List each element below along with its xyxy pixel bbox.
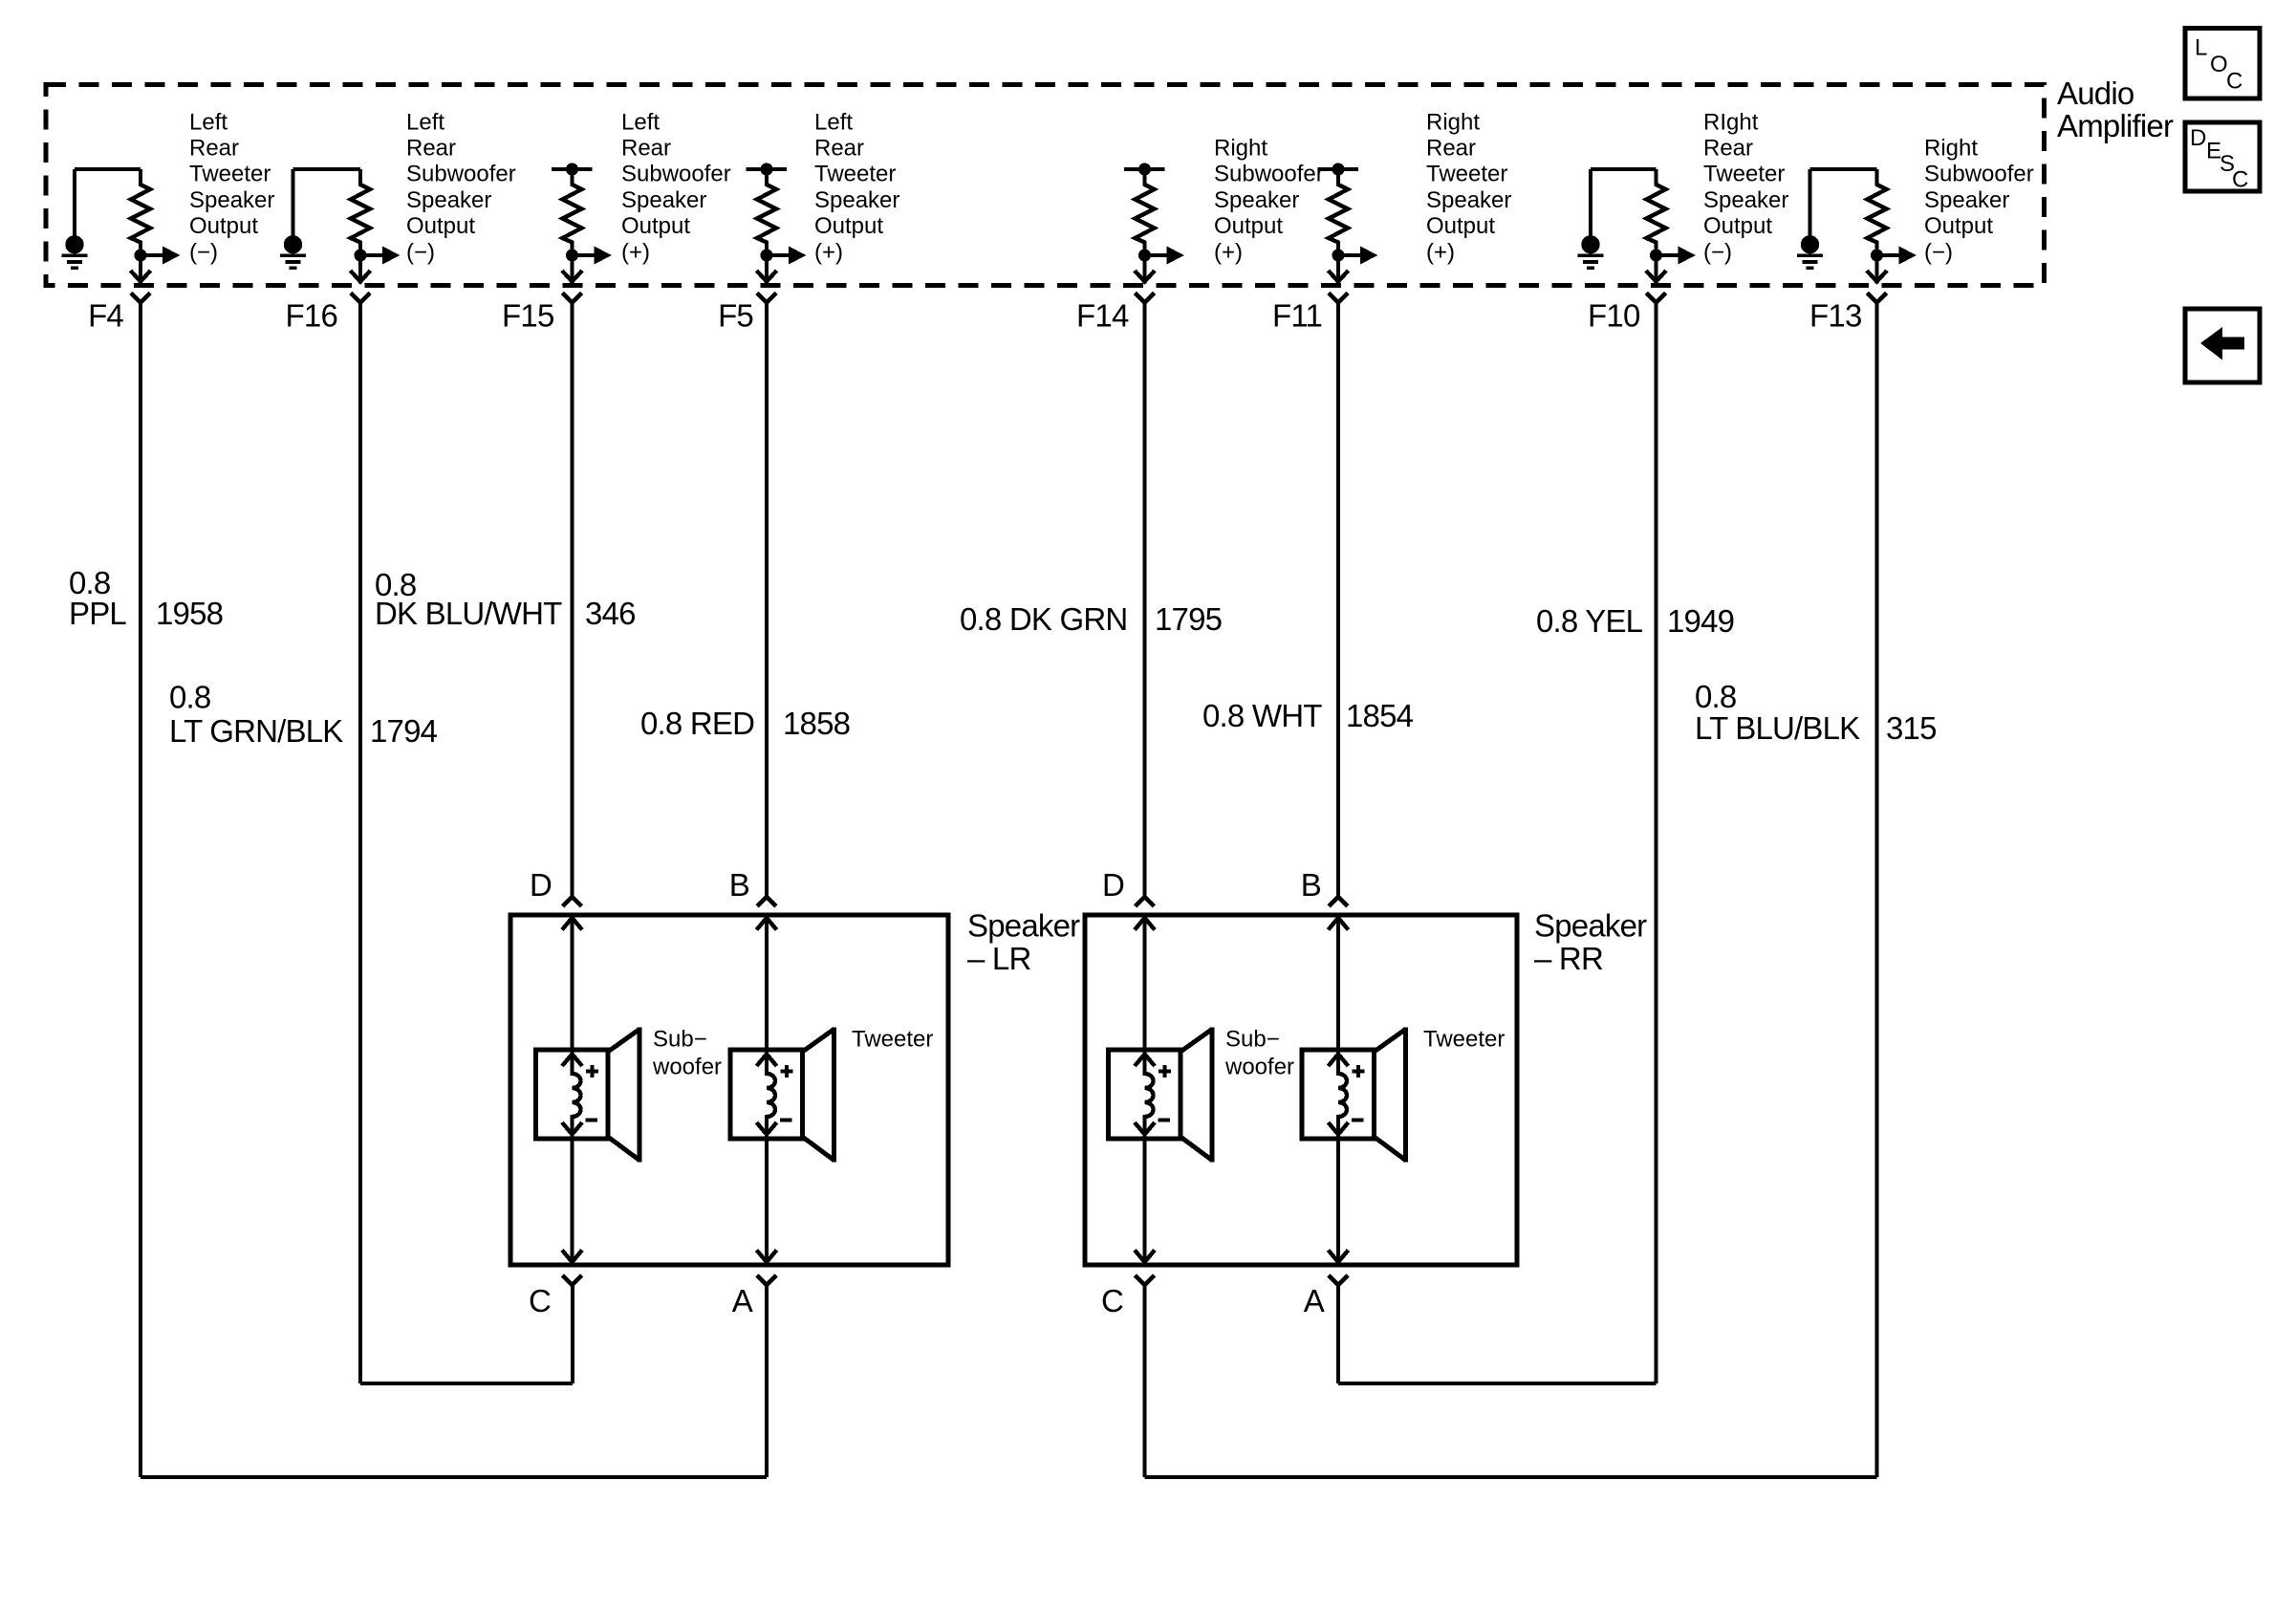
- svg-text:Rear: Rear: [189, 136, 239, 162]
- svg-text:PPL: PPL: [69, 596, 126, 631]
- svg-text:LT GRN/BLK: LT GRN/BLK: [169, 713, 343, 749]
- svg-text:F14: F14: [1076, 298, 1129, 334]
- svg-text:Output: Output: [814, 213, 883, 239]
- svg-text:F4: F4: [88, 298, 123, 334]
- svg-text:Rear: Rear: [406, 136, 456, 162]
- svg-text:Speaker: Speaker: [1703, 187, 1788, 213]
- svg-text:RIght: RIght: [1703, 109, 1759, 135]
- svg-text:1794: 1794: [370, 713, 438, 749]
- svg-text:Speaker: Speaker: [1534, 908, 1647, 944]
- svg-text:Output: Output: [406, 213, 475, 239]
- svg-text:B: B: [729, 867, 749, 903]
- svg-text:F10: F10: [1588, 298, 1640, 334]
- svg-text:Output: Output: [1924, 213, 1993, 239]
- svg-text:Speaker: Speaker: [1214, 187, 1299, 213]
- svg-text:Subwoofer: Subwoofer: [621, 162, 731, 187]
- svg-text:0.8: 0.8: [1695, 679, 1736, 714]
- svg-text:Tweeter: Tweeter: [852, 1027, 933, 1053]
- svg-text:Output: Output: [1703, 213, 1772, 239]
- svg-text:Right: Right: [1924, 136, 1978, 162]
- svg-text:(+): (+): [1426, 239, 1455, 265]
- svg-text:Tweeter: Tweeter: [189, 162, 271, 187]
- svg-text:315: 315: [1886, 710, 1937, 746]
- svg-text:B: B: [1301, 867, 1321, 903]
- svg-text:Amplifier: Amplifier: [2057, 108, 2174, 143]
- svg-text:F11: F11: [1272, 298, 1322, 334]
- svg-text:A: A: [732, 1283, 753, 1318]
- svg-text:Left: Left: [621, 109, 660, 135]
- svg-text:D: D: [2190, 125, 2206, 151]
- svg-text:Speaker: Speaker: [189, 187, 274, 213]
- svg-text:Sub−: Sub−: [653, 1027, 707, 1053]
- svg-text:Speaker: Speaker: [406, 187, 491, 213]
- svg-text:– RR: – RR: [1534, 941, 1603, 976]
- svg-text:346: 346: [585, 596, 636, 631]
- svg-text:A: A: [1304, 1283, 1325, 1318]
- svg-text:Left: Left: [189, 109, 227, 135]
- svg-text:(−): (−): [189, 239, 218, 265]
- svg-text:Subwoofer: Subwoofer: [406, 162, 516, 187]
- svg-text:(+): (+): [621, 239, 650, 265]
- svg-text:(+): (+): [814, 239, 843, 265]
- svg-text:C: C: [2232, 167, 2248, 193]
- svg-text:Rear: Rear: [621, 136, 671, 162]
- svg-text:Speaker: Speaker: [1426, 187, 1511, 213]
- svg-text:(−): (−): [1703, 239, 1732, 265]
- svg-text:Subwoofer: Subwoofer: [1924, 162, 2034, 187]
- svg-text:Output: Output: [621, 213, 690, 239]
- svg-text:– LR: – LR: [967, 941, 1031, 976]
- svg-text:Right: Right: [1426, 109, 1480, 135]
- svg-text:Right: Right: [1214, 136, 1267, 162]
- svg-text:Left: Left: [406, 109, 444, 135]
- svg-text:(+): (+): [1214, 239, 1243, 265]
- svg-text:1949: 1949: [1667, 603, 1734, 639]
- svg-text:Tweeter: Tweeter: [1423, 1027, 1505, 1053]
- svg-text:Speaker: Speaker: [814, 187, 899, 213]
- svg-text:0.8: 0.8: [169, 680, 210, 715]
- svg-text:woofer: woofer: [1224, 1055, 1294, 1080]
- svg-text:Output: Output: [189, 213, 258, 239]
- svg-text:1958: 1958: [156, 596, 223, 631]
- svg-text:Left: Left: [814, 109, 853, 135]
- svg-text:O: O: [2210, 52, 2228, 77]
- svg-text:DK BLU/WHT: DK BLU/WHT: [375, 596, 562, 631]
- svg-text:Rear: Rear: [814, 136, 864, 162]
- svg-text:0.8 RED: 0.8 RED: [640, 706, 754, 741]
- svg-text:Speaker: Speaker: [621, 187, 706, 213]
- svg-text:LT BLU/BLK: LT BLU/BLK: [1695, 710, 1860, 746]
- svg-text:woofer: woofer: [652, 1055, 722, 1080]
- svg-text:Tweeter: Tweeter: [814, 162, 896, 187]
- svg-text:(−): (−): [1924, 239, 1953, 265]
- svg-text:C: C: [1101, 1283, 1123, 1318]
- svg-text:Tweeter: Tweeter: [1426, 162, 1507, 187]
- svg-text:F15: F15: [502, 298, 553, 334]
- svg-text:1795: 1795: [1155, 601, 1222, 637]
- svg-text:F16: F16: [286, 298, 337, 334]
- svg-text:Output: Output: [1214, 213, 1283, 239]
- svg-text:1858: 1858: [783, 706, 850, 741]
- svg-text:D: D: [530, 867, 552, 903]
- svg-text:Subwoofer: Subwoofer: [1214, 162, 1324, 187]
- svg-text:Output: Output: [1426, 213, 1495, 239]
- svg-text:L: L: [2195, 35, 2207, 61]
- svg-text:Rear: Rear: [1426, 136, 1476, 162]
- svg-text:Rear: Rear: [1703, 136, 1753, 162]
- svg-text:0.8 WHT: 0.8 WHT: [1202, 698, 1322, 733]
- svg-text:1854: 1854: [1346, 698, 1414, 733]
- svg-text:Sub−: Sub−: [1225, 1027, 1280, 1053]
- svg-text:0.8 YEL: 0.8 YEL: [1536, 603, 1643, 639]
- svg-text:Tweeter: Tweeter: [1703, 162, 1785, 187]
- svg-text:F13: F13: [1809, 298, 1861, 334]
- svg-text:(−): (−): [406, 239, 435, 265]
- svg-text:C: C: [529, 1283, 551, 1318]
- svg-text:F5: F5: [718, 298, 753, 334]
- svg-text:Speaker: Speaker: [967, 908, 1080, 944]
- svg-text:D: D: [1102, 867, 1124, 903]
- svg-text:C: C: [2226, 69, 2242, 95]
- svg-text:0.8 DK GRN: 0.8 DK GRN: [960, 601, 1127, 637]
- svg-text:Speaker: Speaker: [1924, 187, 2009, 213]
- svg-text:Audio: Audio: [2057, 76, 2134, 111]
